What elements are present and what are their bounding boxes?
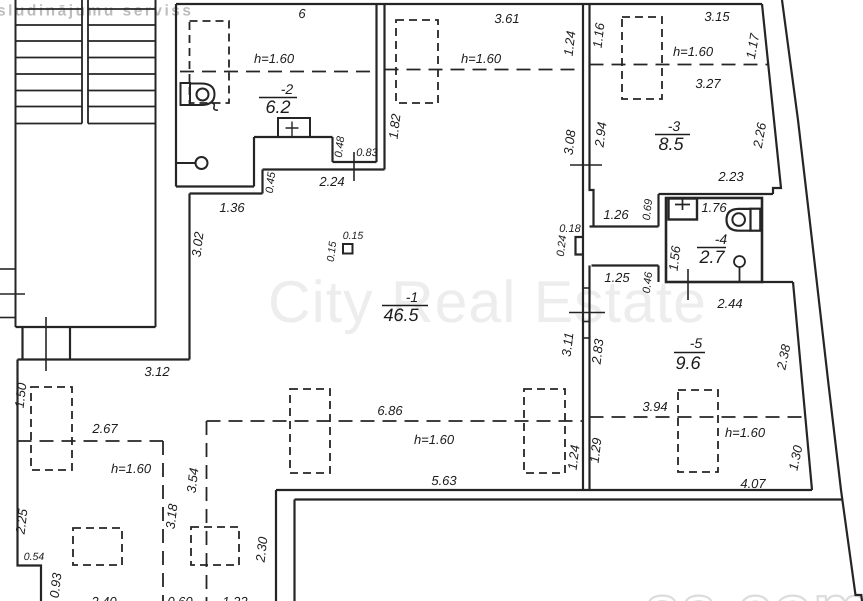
chimney cross xyxy=(286,122,299,137)
svg-text:2.30: 2.30 xyxy=(252,535,270,564)
dashed line h160 room3 xyxy=(590,64,769,66)
svg-text:6.86: 6.86 xyxy=(377,403,403,418)
room label 4 line xyxy=(697,247,726,249)
svg-text:h=1.60: h=1.60 xyxy=(111,461,152,476)
svg-text:1.24: 1.24 xyxy=(565,444,583,471)
svg-text:-3: -3 xyxy=(668,118,681,134)
dashed skylight J lower left xyxy=(31,387,72,470)
svg-text:1.30: 1.30 xyxy=(786,443,806,472)
svg-text:2.24: 2.24 xyxy=(318,174,344,189)
dashed line h160 room2 xyxy=(180,71,377,73)
room 2 left wall xyxy=(175,4,177,187)
svg-text:3.94: 3.94 xyxy=(642,399,667,414)
bathroom box room 4 xyxy=(666,198,762,282)
dashed skylight C bottom xyxy=(191,527,239,565)
toilet room4 tank xyxy=(751,209,761,231)
staircase left stringer xyxy=(15,0,17,327)
staircase divider right line xyxy=(87,0,89,124)
svg-text:0.15: 0.15 xyxy=(325,241,339,263)
svg-text:1.50: 1.50 xyxy=(12,381,30,409)
door circle room2 xyxy=(196,157,208,169)
svg-text:1.25: 1.25 xyxy=(604,270,630,285)
basin room 4 xyxy=(669,199,698,220)
bath bottom extension xyxy=(762,281,793,283)
svg-text:0.69: 0.69 xyxy=(641,198,656,221)
dashed line 6.86 xyxy=(207,420,584,422)
room label 5 line xyxy=(674,352,705,354)
toilet room2 tank xyxy=(181,83,191,105)
dashed skylight G xyxy=(290,389,330,473)
toilet room2 hook xyxy=(212,103,219,110)
svg-text:h=1.60: h=1.60 xyxy=(725,425,766,440)
main wall right line upper xyxy=(590,4,594,227)
svg-text:0.48: 0.48 xyxy=(333,135,348,159)
sill upper line xyxy=(333,161,377,163)
bath top wall 2.23 xyxy=(659,193,774,195)
step wall x332 xyxy=(331,137,333,162)
svg-text:3.18: 3.18 xyxy=(163,502,181,530)
wall tick y312 xyxy=(569,312,605,314)
dashed line 3.54 vertical xyxy=(206,421,208,601)
dashed skylight E middle xyxy=(396,20,438,103)
toilet room2 inner circle xyxy=(197,89,209,101)
svg-text:3.02: 3.02 xyxy=(189,230,207,258)
tick below bath x688 xyxy=(687,269,689,300)
dashed skylight F room3 xyxy=(622,17,662,99)
staircase steps left flight xyxy=(16,9,83,124)
svg-text:0.54: 0.54 xyxy=(24,551,45,563)
svg-text:0.83: 0.83 xyxy=(356,147,378,159)
svg-text:3.54: 3.54 xyxy=(184,467,202,494)
wall 3.02 vertical xyxy=(188,194,190,360)
svg-text:1.26: 1.26 xyxy=(603,207,629,222)
under-landing tick x46 xyxy=(45,317,47,371)
lower structure inner left xyxy=(293,500,295,601)
wall 0.46 vertical xyxy=(657,266,659,283)
toilet room4 inner circle xyxy=(732,213,745,226)
under-landing stub wall x70 xyxy=(69,327,71,360)
svg-text:2.25: 2.25 xyxy=(12,507,30,536)
svg-text:0.93: 0.93 xyxy=(47,571,65,599)
dashed line 3.18 vertical xyxy=(162,441,164,601)
dashed skylight I room5 xyxy=(678,390,718,472)
svg-text:-1: -1 xyxy=(406,289,418,305)
svg-text:ss.com: ss.com xyxy=(645,574,863,601)
staircase divider left line xyxy=(81,0,83,124)
chimney box xyxy=(278,118,310,137)
wall notch 0.18 xyxy=(576,237,584,255)
svg-text:2.26: 2.26 xyxy=(750,121,769,150)
dashed skylight B bottom xyxy=(73,528,122,565)
basin cross xyxy=(675,198,690,210)
room label 3 line xyxy=(655,134,690,136)
svg-text:0.24: 0.24 xyxy=(555,235,570,258)
svg-text:1.16: 1.16 xyxy=(590,21,608,49)
room 3 right slanted wall xyxy=(762,4,781,194)
outer slanted boundary xyxy=(782,0,862,601)
svg-text:3.27: 3.27 xyxy=(695,76,721,91)
room 2 bottom wall xyxy=(176,185,254,187)
svg-text:3.08: 3.08 xyxy=(561,128,579,156)
svg-text:2.38: 2.38 xyxy=(773,342,793,372)
step wall x262 xyxy=(261,170,263,194)
sill lower line xyxy=(263,168,385,170)
svg-text:4.07: 4.07 xyxy=(740,476,766,491)
svg-text:h=1.60: h=1.60 xyxy=(254,51,295,66)
svg-text:City Real Estate: City Real Estate xyxy=(268,269,707,335)
bottom wall of rooms y490 xyxy=(276,489,812,491)
top wall xyxy=(176,3,762,5)
boiler circle room4 xyxy=(734,256,745,267)
svg-text:-4: -4 xyxy=(715,231,728,247)
svg-text:-5: -5 xyxy=(690,335,703,351)
wall tick y165 xyxy=(570,164,602,166)
left wall tick y269 xyxy=(0,268,16,270)
room 5 top wall 1.25 xyxy=(592,264,659,266)
partition wall x384 xyxy=(383,4,385,170)
room label 1 line xyxy=(382,305,428,307)
wall rung y338 xyxy=(583,337,590,339)
boiler stem xyxy=(739,267,741,281)
landing bottom wall xyxy=(16,326,156,328)
tick 0.83 xyxy=(353,152,355,181)
svg-text:1.56: 1.56 xyxy=(666,244,684,272)
svg-text:1.24: 1.24 xyxy=(561,30,579,57)
svg-text:2.67: 2.67 xyxy=(91,421,118,436)
dashed skylight H xyxy=(524,389,565,473)
svg-text:1.82: 1.82 xyxy=(386,112,404,140)
wall rung y321 xyxy=(583,321,590,323)
svg-text:6: 6 xyxy=(298,6,306,21)
room 3 bottom wall 1.26 xyxy=(590,225,659,227)
svg-text:0.15: 0.15 xyxy=(343,230,364,242)
left wall tick y294 xyxy=(0,293,25,295)
svg-text:h=1.60: h=1.60 xyxy=(461,51,502,66)
svg-text:1.76: 1.76 xyxy=(701,200,727,215)
svg-text:9.6: 9.6 xyxy=(675,353,701,373)
room label 2 line xyxy=(259,97,297,99)
svg-text:3.61: 3.61 xyxy=(494,11,519,26)
svg-text:8.5: 8.5 xyxy=(658,134,684,154)
bath outer left wall 0.69 xyxy=(657,194,659,227)
svg-text:2.40: 2.40 xyxy=(90,594,117,601)
svg-text:2.23: 2.23 xyxy=(717,169,744,184)
toilet room2 bowl xyxy=(190,84,215,106)
svg-text:0.60: 0.60 xyxy=(167,594,193,601)
svg-text:1.22: 1.22 xyxy=(222,594,248,601)
dashed skylight A room2 xyxy=(190,21,230,103)
step wall x254 xyxy=(253,137,255,187)
wall 3.12 horizontal xyxy=(18,358,190,360)
outer left wall lower xyxy=(18,360,42,601)
svg-text:3.12: 3.12 xyxy=(144,364,170,379)
main wall left line x583 xyxy=(582,4,584,490)
dashed line 3.94 room5 xyxy=(590,416,808,418)
svg-text:0.45: 0.45 xyxy=(264,170,279,194)
lower structure inner top xyxy=(295,498,842,500)
svg-text:-2: -2 xyxy=(281,81,294,97)
toilet room4 bowl xyxy=(727,209,751,231)
left wall tick y317 xyxy=(0,317,16,319)
staircase right stringer xyxy=(155,0,157,327)
room 5 right slanted wall xyxy=(793,282,812,490)
svg-text:2.94: 2.94 xyxy=(591,121,609,149)
svg-text:sludinājumu serviss: sludinājumu serviss xyxy=(0,3,194,20)
main wall right line lower xyxy=(588,266,590,491)
svg-text:3.11: 3.11 xyxy=(559,331,577,357)
svg-text:2.44: 2.44 xyxy=(716,296,742,311)
svg-text:2.7: 2.7 xyxy=(698,247,725,267)
door line room2 xyxy=(176,162,195,164)
staircase steps right flight xyxy=(88,9,156,124)
wall 1.36 horizontal xyxy=(190,192,263,194)
svg-text:46.5: 46.5 xyxy=(383,305,419,325)
chimney ledge y137 xyxy=(254,136,333,138)
dashed line h160 middle xyxy=(385,69,584,71)
svg-text:h=1.60: h=1.60 xyxy=(414,432,455,447)
wall rung y288 xyxy=(583,287,590,289)
svg-text:1.17: 1.17 xyxy=(743,32,762,60)
column square 0.15 xyxy=(343,244,353,254)
svg-text:6.2: 6.2 xyxy=(265,97,290,117)
svg-text:1.29: 1.29 xyxy=(587,437,605,464)
svg-text:3.15: 3.15 xyxy=(704,9,730,24)
svg-text:1.36: 1.36 xyxy=(219,200,245,215)
svg-text:5.63: 5.63 xyxy=(431,473,457,488)
dashed line 2.67 xyxy=(18,440,164,442)
svg-text:h=1.60: h=1.60 xyxy=(673,44,714,59)
lower structure outer left xyxy=(275,490,277,601)
partition wall x376 xyxy=(375,4,377,162)
under-landing stub wall x22 xyxy=(21,327,23,360)
svg-text:0.18: 0.18 xyxy=(559,223,581,235)
svg-text:2.83: 2.83 xyxy=(588,337,606,366)
